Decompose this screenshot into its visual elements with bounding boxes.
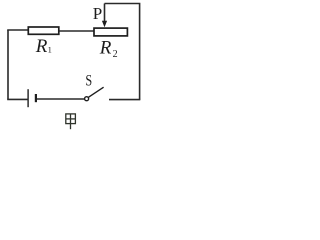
wiper arrow P <box>102 4 107 28</box>
label jia (甲) drawn as strokes <box>66 114 76 129</box>
wire top-right <box>105 4 140 100</box>
wire left vertical <box>7 30 9 99</box>
rheostat R2 <box>94 28 127 36</box>
label R2 <box>99 38 118 61</box>
battery cell <box>28 89 36 107</box>
svg-text:1: 1 <box>48 45 52 55</box>
svg-text:R: R <box>35 36 48 57</box>
wire bottom-right <box>109 99 140 101</box>
resistor R1 <box>28 27 59 34</box>
svg-text:R: R <box>99 38 112 59</box>
switch S <box>85 87 104 101</box>
wire R1 to R2 <box>59 30 94 32</box>
label P <box>93 4 102 23</box>
svg-text:S: S <box>85 72 92 89</box>
label S <box>85 72 92 89</box>
wire switch to battery <box>37 98 85 100</box>
svg-text:P: P <box>93 4 102 23</box>
label R1 <box>35 36 52 57</box>
wire top-left to R1 <box>7 29 28 31</box>
wire bottom-left <box>7 98 28 100</box>
svg-text:2: 2 <box>113 49 118 60</box>
